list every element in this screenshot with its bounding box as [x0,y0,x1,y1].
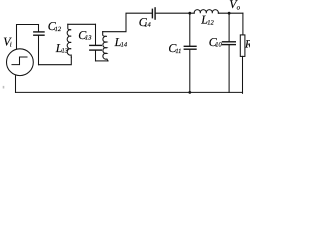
voltage source V1 [7,49,34,76]
label C14 [139,15,152,29]
svg-text:12: 12 [55,26,62,33]
label C11 [168,41,181,55]
wire L12 to output [219,12,243,14]
ground rail [16,91,243,93]
inductor L14 [103,32,108,61]
wire C13 bottom to L14 bottom [96,60,109,62]
svg-text:11: 11 [175,48,181,55]
node dot junction C11 [188,12,191,15]
wire L14 top, step up to top rail [103,13,152,32]
label C10 [209,35,223,49]
svg-text:12: 12 [207,19,214,26]
svg-text:14: 14 [121,42,128,49]
svg-text:i: i [10,40,12,48]
capacitor C11 [189,13,191,46]
capacitor C13 [95,24,97,45]
label C13 [78,28,92,42]
svg-text:o: o [237,3,241,11]
scan speckle [3,86,5,89]
svg-text:13: 13 [62,48,69,55]
svg-text:10: 10 [215,42,222,49]
step waveform symbol [12,57,27,65]
capacitor C10 [228,13,230,41]
label L14 [114,35,128,49]
label Vi [3,34,12,48]
wire L13 top to C13 [68,23,96,25]
inductor L13 [67,24,71,57]
capacitor C12 [38,25,40,32]
wire C14 to L12 [156,12,191,14]
wire source bottom [15,76,17,93]
svg-text:R: R [244,39,250,51]
label Vo [229,0,240,11]
svg-text:13: 13 [85,35,92,42]
label C12 [48,19,62,33]
resistor R [242,13,244,35]
node dot C11 ground [188,91,191,94]
wire source top to rail [17,25,39,49]
svg-text:14: 14 [144,22,151,29]
wire C12 bottom to L13 bottom [39,57,72,64]
label L12 [200,13,214,27]
capacitor C14 [151,9,153,17]
label L13 [55,41,69,55]
label R [244,39,252,51]
inductor L12 [190,10,219,14]
node dot Vo [228,12,231,15]
